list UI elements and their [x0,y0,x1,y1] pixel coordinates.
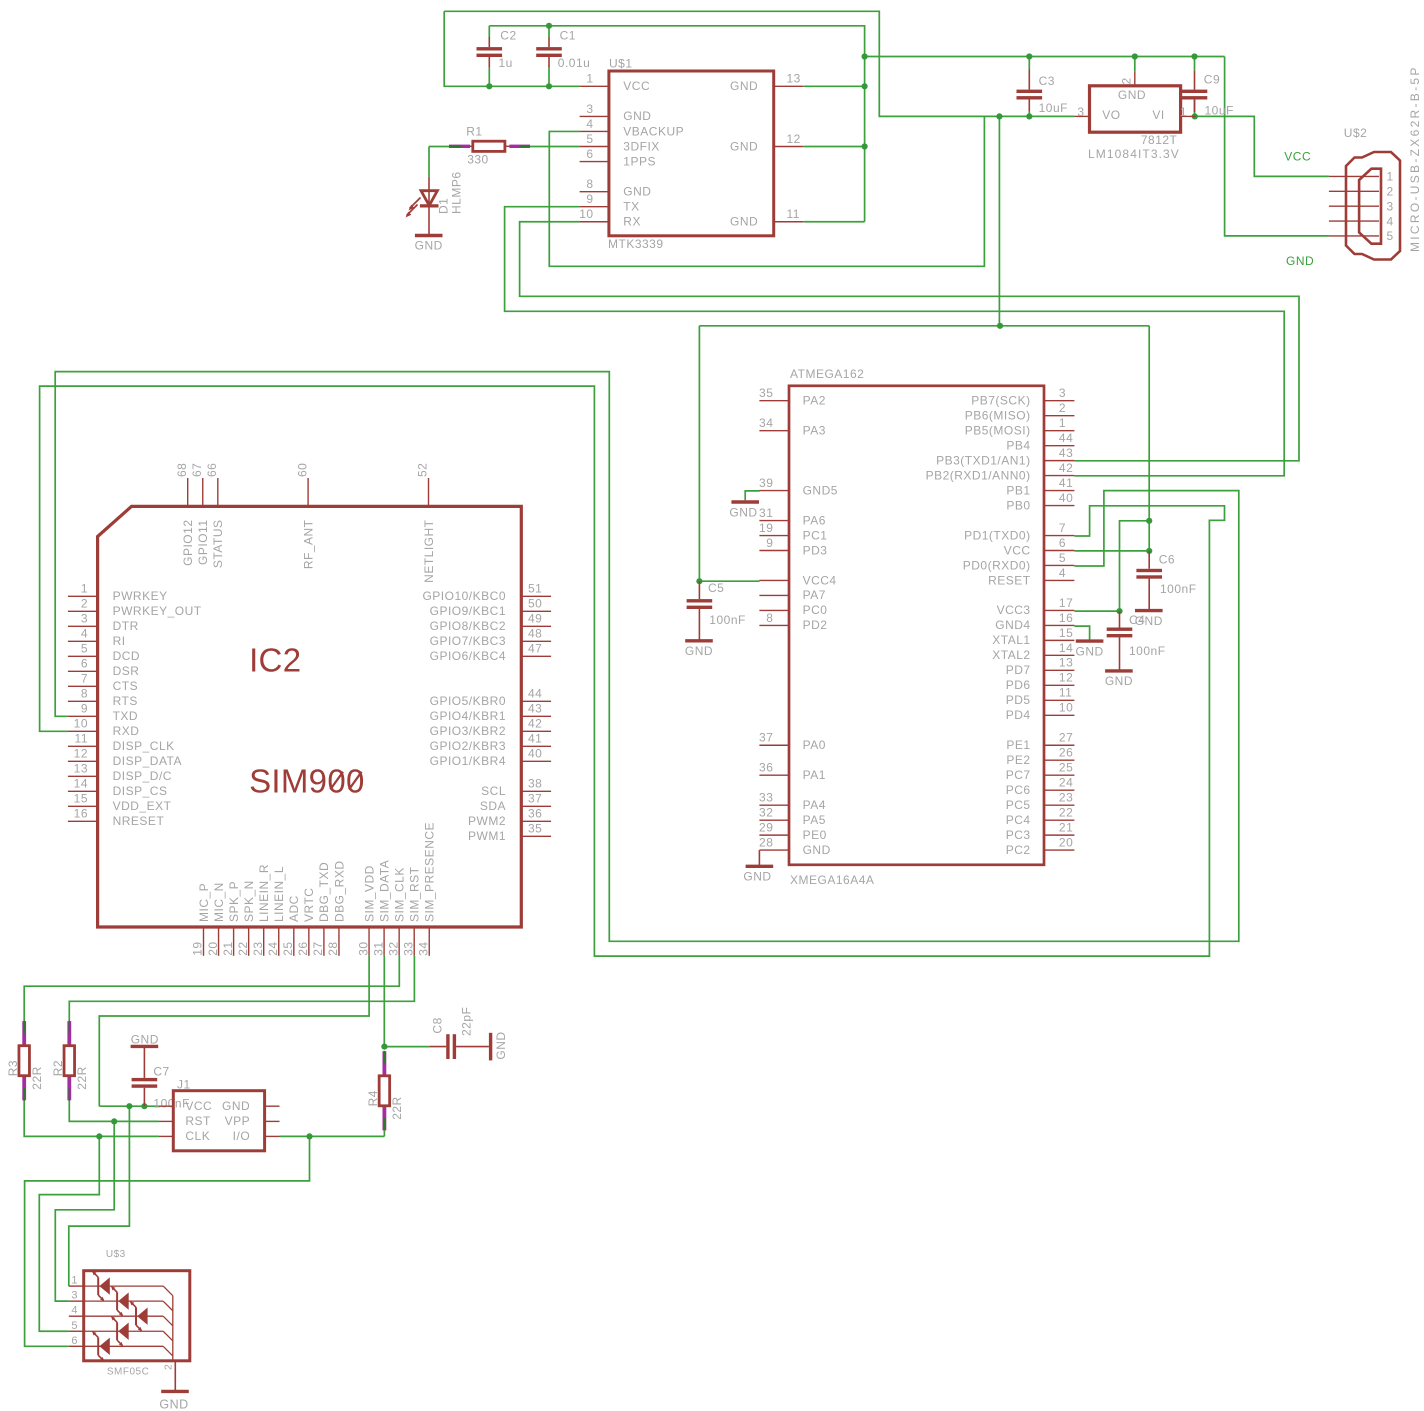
wire R3 bottom to SIM socket CLK [24,1100,159,1136]
svg-text:10uF: 10uF [1205,104,1234,118]
svg-text:100nF: 100nF [1129,644,1166,658]
svg-text:3: 3 [71,1290,78,1302]
svg-text:R2: R2 [51,1060,65,1076]
svg-text:C2: C2 [500,28,516,42]
svg-text:PC5: PC5 [1006,798,1031,812]
svg-text:10: 10 [1059,701,1073,715]
svg-text:PC6: PC6 [1006,783,1031,797]
svg-text:16: 16 [1059,611,1073,625]
wire R4 top node to C8 [384,1046,429,1048]
svg-text:PA2: PA2 [803,394,826,408]
TVS diode D5 of U$3 [97,1337,99,1355]
node junction C2 bottom / VCC wire [486,83,492,89]
svg-text:67: 67 [190,463,204,477]
node junction C4 branch [1146,518,1152,524]
svg-text:16: 16 [74,807,88,821]
capacitor C2 1u [488,37,490,47]
svg-text:49: 49 [528,612,542,626]
regulator pin 3 VO [1074,115,1089,117]
svg-text:48: 48 [528,627,542,641]
J1 right pins GND VPP I/O [265,1105,280,1107]
svg-text:PD5: PD5 [1006,693,1031,707]
svg-text:R3: R3 [6,1060,20,1076]
wire R4 bottom link [383,1131,385,1137]
svg-text:24: 24 [1059,776,1073,790]
svg-text:51: 51 [528,582,542,596]
svg-text:2: 2 [81,597,88,611]
svg-text:28: 28 [326,941,340,955]
svg-text:44: 44 [528,687,542,701]
wire SIM_CLK pin 32 to R3 [24,956,399,1021]
wire GND4 pin 16 to ground [1074,626,1089,639]
svg-text:11: 11 [1059,686,1072,700]
svg-text:DISP_DATA: DISP_DATA [113,754,182,768]
svg-text:3: 3 [1077,105,1084,119]
svg-text:I/O: I/O [233,1129,251,1143]
svg-text:GND: GND [1105,674,1133,688]
GSM module IC2 SIM900 [98,506,522,927]
svg-text:27: 27 [311,941,325,955]
ground (right of C8, rotated) [489,1033,492,1061]
svg-text:MTK3339: MTK3339 [608,237,664,251]
svg-text:PWRKEY: PWRKEY [113,589,168,603]
svg-text:100nF: 100nF [709,613,746,627]
SIM900 top pins 68,67,66,60,52 [187,478,189,506]
svg-text:XTAL2: XTAL2 [992,648,1030,662]
svg-text:6: 6 [81,657,88,671]
voltage regulator U 7812T LM1084IT3.3V [1090,86,1181,132]
svg-text:35: 35 [528,822,542,836]
svg-text:1: 1 [586,72,593,86]
svg-text:GND: GND [1286,254,1314,268]
svg-text:3: 3 [81,612,88,626]
svg-text:LM1084IT3.3V: LM1084IT3.3V [1088,147,1180,161]
node junction 3.3V rail [996,113,1002,119]
svg-text:2: 2 [1059,401,1066,415]
svg-text:PA3: PA3 [803,423,826,437]
svg-text:GPIO1/KBR4: GPIO1/KBR4 [430,754,506,768]
svg-text:22R: 22R [390,1096,404,1120]
svg-text:PE1: PE1 [1006,738,1030,752]
svg-text:PE2: PE2 [1006,753,1030,767]
SIM card socket J1 [173,1091,264,1151]
wire regulator GND pin 2 link [1134,57,1136,72]
svg-text:2: 2 [1387,185,1394,199]
wire R2 bottom to SIM socket RST [69,1100,159,1121]
svg-text:44: 44 [1059,431,1073,445]
wire C2 top link [488,26,490,37]
node junction C1 bottom / VCC wire [546,83,552,89]
svg-text:34: 34 [759,416,773,430]
wire ATMEGA PD0(RXD0) to SIM900 TXD pin 9 [55,372,1239,942]
svg-text:PB3(TXD1/AN1): PB3(TXD1/AN1) [936,453,1031,467]
wire SIM socket VCC row [99,1105,159,1107]
J1 left pins VCC RST CLK [159,1105,173,1107]
svg-text:25: 25 [1059,761,1073,775]
svg-text:SIM_PRESENCE: SIM_PRESENCE [423,822,437,922]
svg-text:RST: RST [185,1114,211,1128]
svg-text:VBACKUP: VBACKUP [623,124,684,138]
svg-text:GND: GND [1076,644,1104,658]
svg-text:PA5: PA5 [803,813,826,827]
svg-text:DISP_D/C: DISP_D/C [113,769,172,783]
node junction C3 bottom [1026,113,1032,119]
svg-text:U$2: U$2 [1344,126,1368,140]
svg-text:LINEIN_R: LINEIN_R [257,864,271,922]
wire GND stub GPS pin 12 [804,146,865,148]
capacitor C9 10uF [1194,71,1196,90]
node junction regulator pin 2 [1132,53,1138,59]
svg-text:LINEIN_L: LINEIN_L [272,866,286,922]
svg-text:66: 66 [205,463,219,477]
svg-text:RF_ANT: RF_ANT [301,519,315,569]
svg-text:VCC: VCC [623,79,650,93]
svg-text:DBG_RXD: DBG_RXD [332,860,346,922]
svg-text:13: 13 [1059,656,1073,670]
node junction VCC row / TVS branch [126,1103,132,1109]
svg-text:PWM2: PWM2 [468,814,506,828]
node junction ATMEGA VCC rail [997,323,1003,329]
node junction I/O row [306,1133,312,1139]
svg-text:GPIO10/KBC0: GPIO10/KBC0 [422,589,506,603]
svg-text:PB6(MISO): PB6(MISO) [965,408,1031,422]
svg-text:22R: 22R [75,1066,89,1090]
svg-text:C4: C4 [1129,613,1145,627]
wire ATMEGA VCC top rail [699,325,1149,327]
svg-text:20: 20 [1059,836,1073,850]
svg-text:GPIO3/KBR2: GPIO3/KBR2 [430,724,506,738]
svg-text:PC0: PC0 [803,603,828,617]
svg-text:GND: GND [743,870,771,884]
svg-text:4: 4 [1059,566,1066,580]
svg-text:PD6: PD6 [1006,678,1031,692]
svg-text:GPIO8/KBC2: GPIO8/KBC2 [430,619,506,633]
wire VCC from regulator VI / C9 to USB pin 1 [1196,116,1329,176]
wire VCC3.3 rail: top loop to regulator VO pin 3 [444,11,1074,116]
svg-text:PC7: PC7 [1006,768,1031,782]
TVS diode D3 of U$3 [135,1307,137,1325]
svg-text:GND: GND [623,184,651,198]
USB connector U$2 MICRO-USB-ZX62R-B-5P [1346,152,1400,260]
svg-text:MICRO-USB-ZX62R-B-5P: MICRO-USB-ZX62R-B-5P [1408,65,1422,252]
wire VCC3.3 to GPS VCC pin 1 and C2/C1 bottoms [444,11,579,86]
svg-text:DTR: DTR [113,619,139,633]
svg-text:100nF: 100nF [1160,582,1197,596]
svg-text:5: 5 [586,132,593,146]
svg-text:R4: R4 [366,1090,380,1106]
svg-text:PD2: PD2 [803,618,828,632]
svg-text:GND: GND [730,79,758,93]
svg-text:GPIO12: GPIO12 [181,520,195,566]
svg-text:D1: D1 [437,198,451,214]
svg-text:SIM_VDD: SIM_VDD [362,865,376,922]
U$3 pin 2 lead [174,1361,176,1391]
svg-text:MIC_N: MIC_N [212,882,226,922]
slashed zeros of SIM900 [330,772,343,790]
U$3 pins 1,3,4,5,6 [69,1285,84,1287]
svg-text:PB1: PB1 [1006,483,1030,497]
wire GPS RX to ATMEGA PB3(TXD1) [520,222,1299,461]
svg-text:6: 6 [71,1335,78,1347]
wire C9 top link [1194,57,1196,71]
svg-text:1u: 1u [499,56,513,70]
U$1 right pins 13,12,11 [774,85,804,87]
wire C1 top link [548,26,550,37]
svg-text:HLMP6: HLMP6 [450,171,464,214]
ground (below C4) [1105,669,1133,672]
svg-text:34: 34 [416,941,430,955]
svg-text:10: 10 [579,207,593,221]
wire SIM CLK to TVS pin 5 [39,1136,99,1331]
svg-text:GND: GND [685,644,713,658]
svg-text:4: 4 [586,117,593,131]
svg-text:68: 68 [175,463,189,477]
svg-text:41: 41 [528,732,542,746]
svg-text:39: 39 [759,476,773,490]
wire GND rail across C3 / regulator GND / C9 [865,56,1225,58]
svg-text:23: 23 [251,941,265,955]
TVS diode array U$3 SMF05C [84,1271,190,1361]
svg-text:NETLIGHT: NETLIGHT [422,519,436,583]
svg-text:5: 5 [81,642,88,656]
svg-text:32: 32 [759,806,773,820]
svg-text:PC4: PC4 [1006,813,1031,827]
svg-text:SIM900: SIM900 [249,763,365,800]
svg-text:C7: C7 [153,1065,169,1079]
svg-text:37: 37 [759,731,773,745]
svg-text:6: 6 [586,147,593,161]
svg-text:GPIO7/KBC3: GPIO7/KBC3 [430,634,506,648]
regulator pin 1 VI [1181,115,1196,117]
svg-text:PB0: PB0 [1006,498,1030,512]
svg-text:14: 14 [1059,641,1073,655]
svg-text:VCC4: VCC4 [803,573,837,587]
svg-text:SMF05C: SMF05C [107,1367,149,1378]
node junction VCC3 / C4 [1116,608,1122,614]
wire GND net: C2/C1 tops to GPS GND pins 13/12/11 [489,26,864,222]
svg-text:VRTC: VRTC [302,888,316,922]
wire SIM_DATA pin 31 down to R4 [383,956,385,1047]
svg-text:11: 11 [787,207,800,221]
svg-text:PB4: PB4 [1006,438,1030,452]
svg-text:RESET: RESET [988,573,1031,587]
ground (below C6) [1135,609,1163,612]
svg-text:3: 3 [1059,386,1066,400]
svg-text:SPK_N: SPK_N [242,880,256,922]
svg-text:VCC: VCC [1284,150,1311,164]
svg-text:GND: GND [623,109,651,123]
svg-text:11: 11 [75,732,88,746]
wire VCC down to VCC pin 6 / C6 [1148,326,1150,551]
svg-text:42: 42 [1059,461,1073,475]
svg-text:GPIO2/KBR3: GPIO2/KBR3 [430,739,506,753]
wire C1 bottom link [548,67,550,87]
capacitor C5 100nF [698,581,700,599]
svg-text:GPIO6/KBC4: GPIO6/KBC4 [430,649,506,663]
svg-text:GND: GND [494,1031,508,1059]
svg-text:TXD: TXD [113,709,139,723]
SIM900 left pins 1-16 [68,595,98,597]
wire C2 bottom link [488,67,490,87]
node junction VCC4 / C5 [696,578,702,584]
svg-text:8: 8 [766,611,773,625]
wire SIM socket I/O row to R4 [280,1135,385,1137]
svg-text:15: 15 [1059,626,1073,640]
svg-text:28: 28 [759,836,773,850]
TVS diode D4 of U$3 [116,1322,118,1340]
svg-text:DISP_CS: DISP_CS [113,784,168,798]
resistor R3 22R [23,1021,25,1101]
LED D1 HLMP6 [428,177,430,236]
svg-text:25: 25 [281,941,295,955]
svg-text:21: 21 [1059,821,1073,835]
node junction R4 / C8 / SIM_DATA [381,1044,387,1050]
svg-text:PC3: PC3 [1006,828,1031,842]
wire C5 node to VCC4 pin [699,580,759,582]
svg-text:GND: GND [131,1032,159,1046]
svg-text:32: 32 [386,941,400,955]
svg-text:PC2: PC2 [1006,843,1031,857]
svg-text:PD0(RXD0): PD0(RXD0) [963,558,1031,572]
wire VCC down to VCC4/C5 [698,326,700,581]
svg-text:41: 41 [1059,476,1073,490]
svg-text:31: 31 [759,506,773,520]
svg-text:RXD: RXD [113,724,140,738]
svg-text:RX: RX [623,215,641,229]
svg-text:DISP_CLK: DISP_CLK [113,739,175,753]
svg-text:13: 13 [787,72,801,86]
svg-text:VCC: VCC [1004,543,1031,557]
node junction CLK row [96,1133,102,1139]
wire R1 node down to LED D1 [428,147,430,177]
wire C3 bottom link [1028,111,1030,116]
svg-text:43: 43 [1059,446,1073,460]
svg-text:SIM_RST: SIM_RST [408,866,422,922]
svg-text:30: 30 [356,941,370,955]
svg-text:36: 36 [759,761,773,775]
svg-text:60: 60 [295,463,309,477]
ground (ATMEGA pin 28) [758,850,760,866]
svg-text:1: 1 [1059,416,1066,430]
svg-text:26: 26 [296,941,310,955]
resistor R4 22R [383,1051,385,1131]
svg-text:GPIO4/KBR1: GPIO4/KBR1 [430,709,506,723]
svg-text:8: 8 [586,177,593,191]
svg-text:52: 52 [416,463,430,477]
microcontroller IC ATMEGA162 XMEGA16A4A [789,386,1044,865]
TVS diode D1 of U$3 [97,1277,99,1295]
svg-text:2: 2 [163,1364,174,1370]
ground (above C7) [131,1045,159,1048]
svg-text:C5: C5 [708,581,724,595]
svg-text:7812T: 7812T [1141,133,1178,147]
svg-text:29: 29 [759,821,773,835]
svg-text:R1: R1 [466,125,482,139]
svg-text:IC2: IC2 [249,641,301,678]
svg-text:RI: RI [113,634,126,648]
svg-text:GND: GND [159,1398,188,1411]
svg-text:PA4: PA4 [803,798,826,812]
svg-text:C3: C3 [1039,74,1055,88]
node junction RST row [111,1118,117,1124]
svg-text:10: 10 [74,717,88,731]
svg-text:47: 47 [528,642,542,656]
ATMEGA162 right pins [1044,400,1074,402]
svg-text:XMEGA16A4A: XMEGA16A4A [790,873,874,887]
wire SIM RST to TVS pin 3 [55,1121,114,1301]
svg-text:19: 19 [191,941,205,955]
svg-text:PD1(TXD0): PD1(TXD0) [964,528,1031,542]
svg-text:C1: C1 [560,28,576,42]
wire GND stub GPS pin 11 [804,221,865,223]
wire GND5 pin 39 to ground [745,491,759,500]
svg-text:VCC3: VCC3 [997,603,1031,617]
wire GND stub GPS pin 13 [804,85,865,87]
svg-text:DSR: DSR [113,664,140,678]
wire SIM VCC to TVS pin 1 [69,1106,130,1286]
svg-text:PD3: PD3 [803,543,828,557]
svg-text:1PPS: 1PPS [623,154,656,168]
svg-text:CLK: CLK [185,1129,210,1143]
wire R1 right to 3DFIX pin 5 [530,146,580,148]
resistor R2 22R [68,1021,70,1101]
capacitor C8 22pF [430,1046,447,1048]
svg-text:22pF: 22pF [459,1007,473,1036]
svg-text:PA0: PA0 [803,738,826,752]
svg-text:4: 4 [71,1305,78,1317]
svg-text:C9: C9 [1204,73,1220,87]
svg-text:12: 12 [74,747,88,761]
svg-text:3: 3 [1387,199,1394,213]
svg-text:2: 2 [1120,77,1134,84]
wire ATMEGA PD1(TXD0) to SIM900 RXD pin 10 [40,386,1225,956]
svg-text:PB5(MOSI): PB5(MOSI) [965,423,1031,437]
svg-text:PE0: PE0 [803,828,827,842]
svg-text:42: 42 [528,717,542,731]
svg-text:ADC: ADC [287,895,301,922]
svg-text:23: 23 [1059,791,1073,805]
U$3 internal bus to pin 2 [84,1285,164,1287]
svg-text:GND: GND [730,139,758,153]
svg-text:RTS: RTS [113,694,138,708]
svg-text:22: 22 [236,941,250,955]
wire 3DFIX to R1 left [429,146,449,148]
svg-text:PB2(RXD1/ANN0): PB2(RXD1/ANN0) [926,468,1031,482]
svg-text:15: 15 [74,792,88,806]
node junction C1 top / GND wire [546,23,552,29]
svg-text:22R: 22R [30,1066,44,1090]
wire VCC link to C4 node [1120,521,1150,611]
svg-text:NRESET: NRESET [113,814,165,828]
svg-text:26: 26 [1059,746,1073,760]
svg-text:GPIO9/KBC1: GPIO9/KBC1 [430,604,506,618]
wire ATMEGA VCC pin 6 to C6 node [1074,550,1149,552]
svg-text:31: 31 [371,941,385,955]
node junction GPS pin 13 [862,83,868,89]
svg-text:1: 1 [1387,170,1394,184]
svg-text:XTAL1: XTAL1 [992,633,1030,647]
svg-text:3DFIX: 3DFIX [623,139,660,153]
svg-text:330: 330 [467,153,489,167]
svg-text:VO: VO [1102,108,1120,122]
svg-text:1: 1 [81,582,88,596]
svg-text:GND4: GND4 [995,618,1030,632]
svg-text:DBG_TXD: DBG_TXD [317,862,331,922]
svg-text:GND: GND [415,239,443,253]
svg-text:35: 35 [759,386,773,400]
ground (ATMEGA pin 16 GND4) [1076,639,1104,642]
wire 3.3V rail to ATMEGA VCC rail [998,116,1000,325]
